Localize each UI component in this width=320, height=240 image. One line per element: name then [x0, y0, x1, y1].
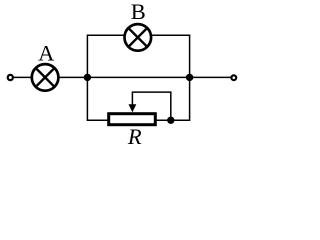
svg-text:R: R — [127, 124, 142, 149]
svg-text:A: A — [38, 40, 55, 65]
svg-text:B: B — [131, 0, 146, 24]
